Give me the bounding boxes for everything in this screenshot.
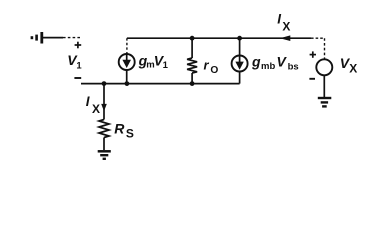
label V1 polarity + [75,42,82,49]
junction node source / RS [102,81,107,86]
current source U2 gmbVbs [232,56,248,72]
current arrow IX (top rail, pointing left) [280,35,290,41]
current arrow IX (RS branch, pointing down) [101,104,107,111]
svg-text:S: S [126,127,134,141]
label VX polarity + [310,51,316,57]
ground (VX) [318,98,332,106]
voltage source VX [316,59,332,75]
wire rO top [191,38,193,58]
svg-text:I: I [86,94,90,109]
wire VX top (corner, dotted) [324,38,326,59]
wire RS bottom [103,138,105,151]
svg-text:X: X [282,19,290,33]
wire gm top (dotted) [126,38,128,54]
svg-text:1: 1 [163,60,169,71]
wire VX bottom [323,75,325,97]
svg-text:I: I [277,11,281,26]
label V1 polarity − [74,77,81,79]
svg-text:R: R [114,120,125,136]
svg-text:X: X [92,102,100,116]
wire drain rail (top) [127,37,325,39]
wire source rail (bottom) [81,83,240,85]
label VX polarity − [309,78,315,80]
ground (gate, rotated left) [32,32,42,44]
junction node source / gm [125,81,130,86]
wire gate (from ground, fading to dots) [43,37,80,39]
svg-text:g: g [251,53,261,69]
resistor rO [187,58,197,73]
wire gmb bottom [239,72,241,84]
current source U1 gmV1 [119,54,135,70]
resistor RS [99,120,109,138]
svg-text:1: 1 [76,61,82,72]
wire RS branch (with current arrow) [103,84,105,120]
svg-text:mb: mb [261,61,275,72]
svg-text:X: X [349,62,357,76]
junction node drain / rO [190,36,195,41]
ground (RS) [98,151,111,159]
junction node drain / gmb [237,36,242,41]
junction node source / rO [190,81,195,86]
svg-text:O: O [210,65,218,76]
wire gm bottom [126,70,128,84]
wire gmb top [239,38,241,55]
svg-text:bs: bs [288,62,299,73]
wire rO bottom [191,73,193,84]
